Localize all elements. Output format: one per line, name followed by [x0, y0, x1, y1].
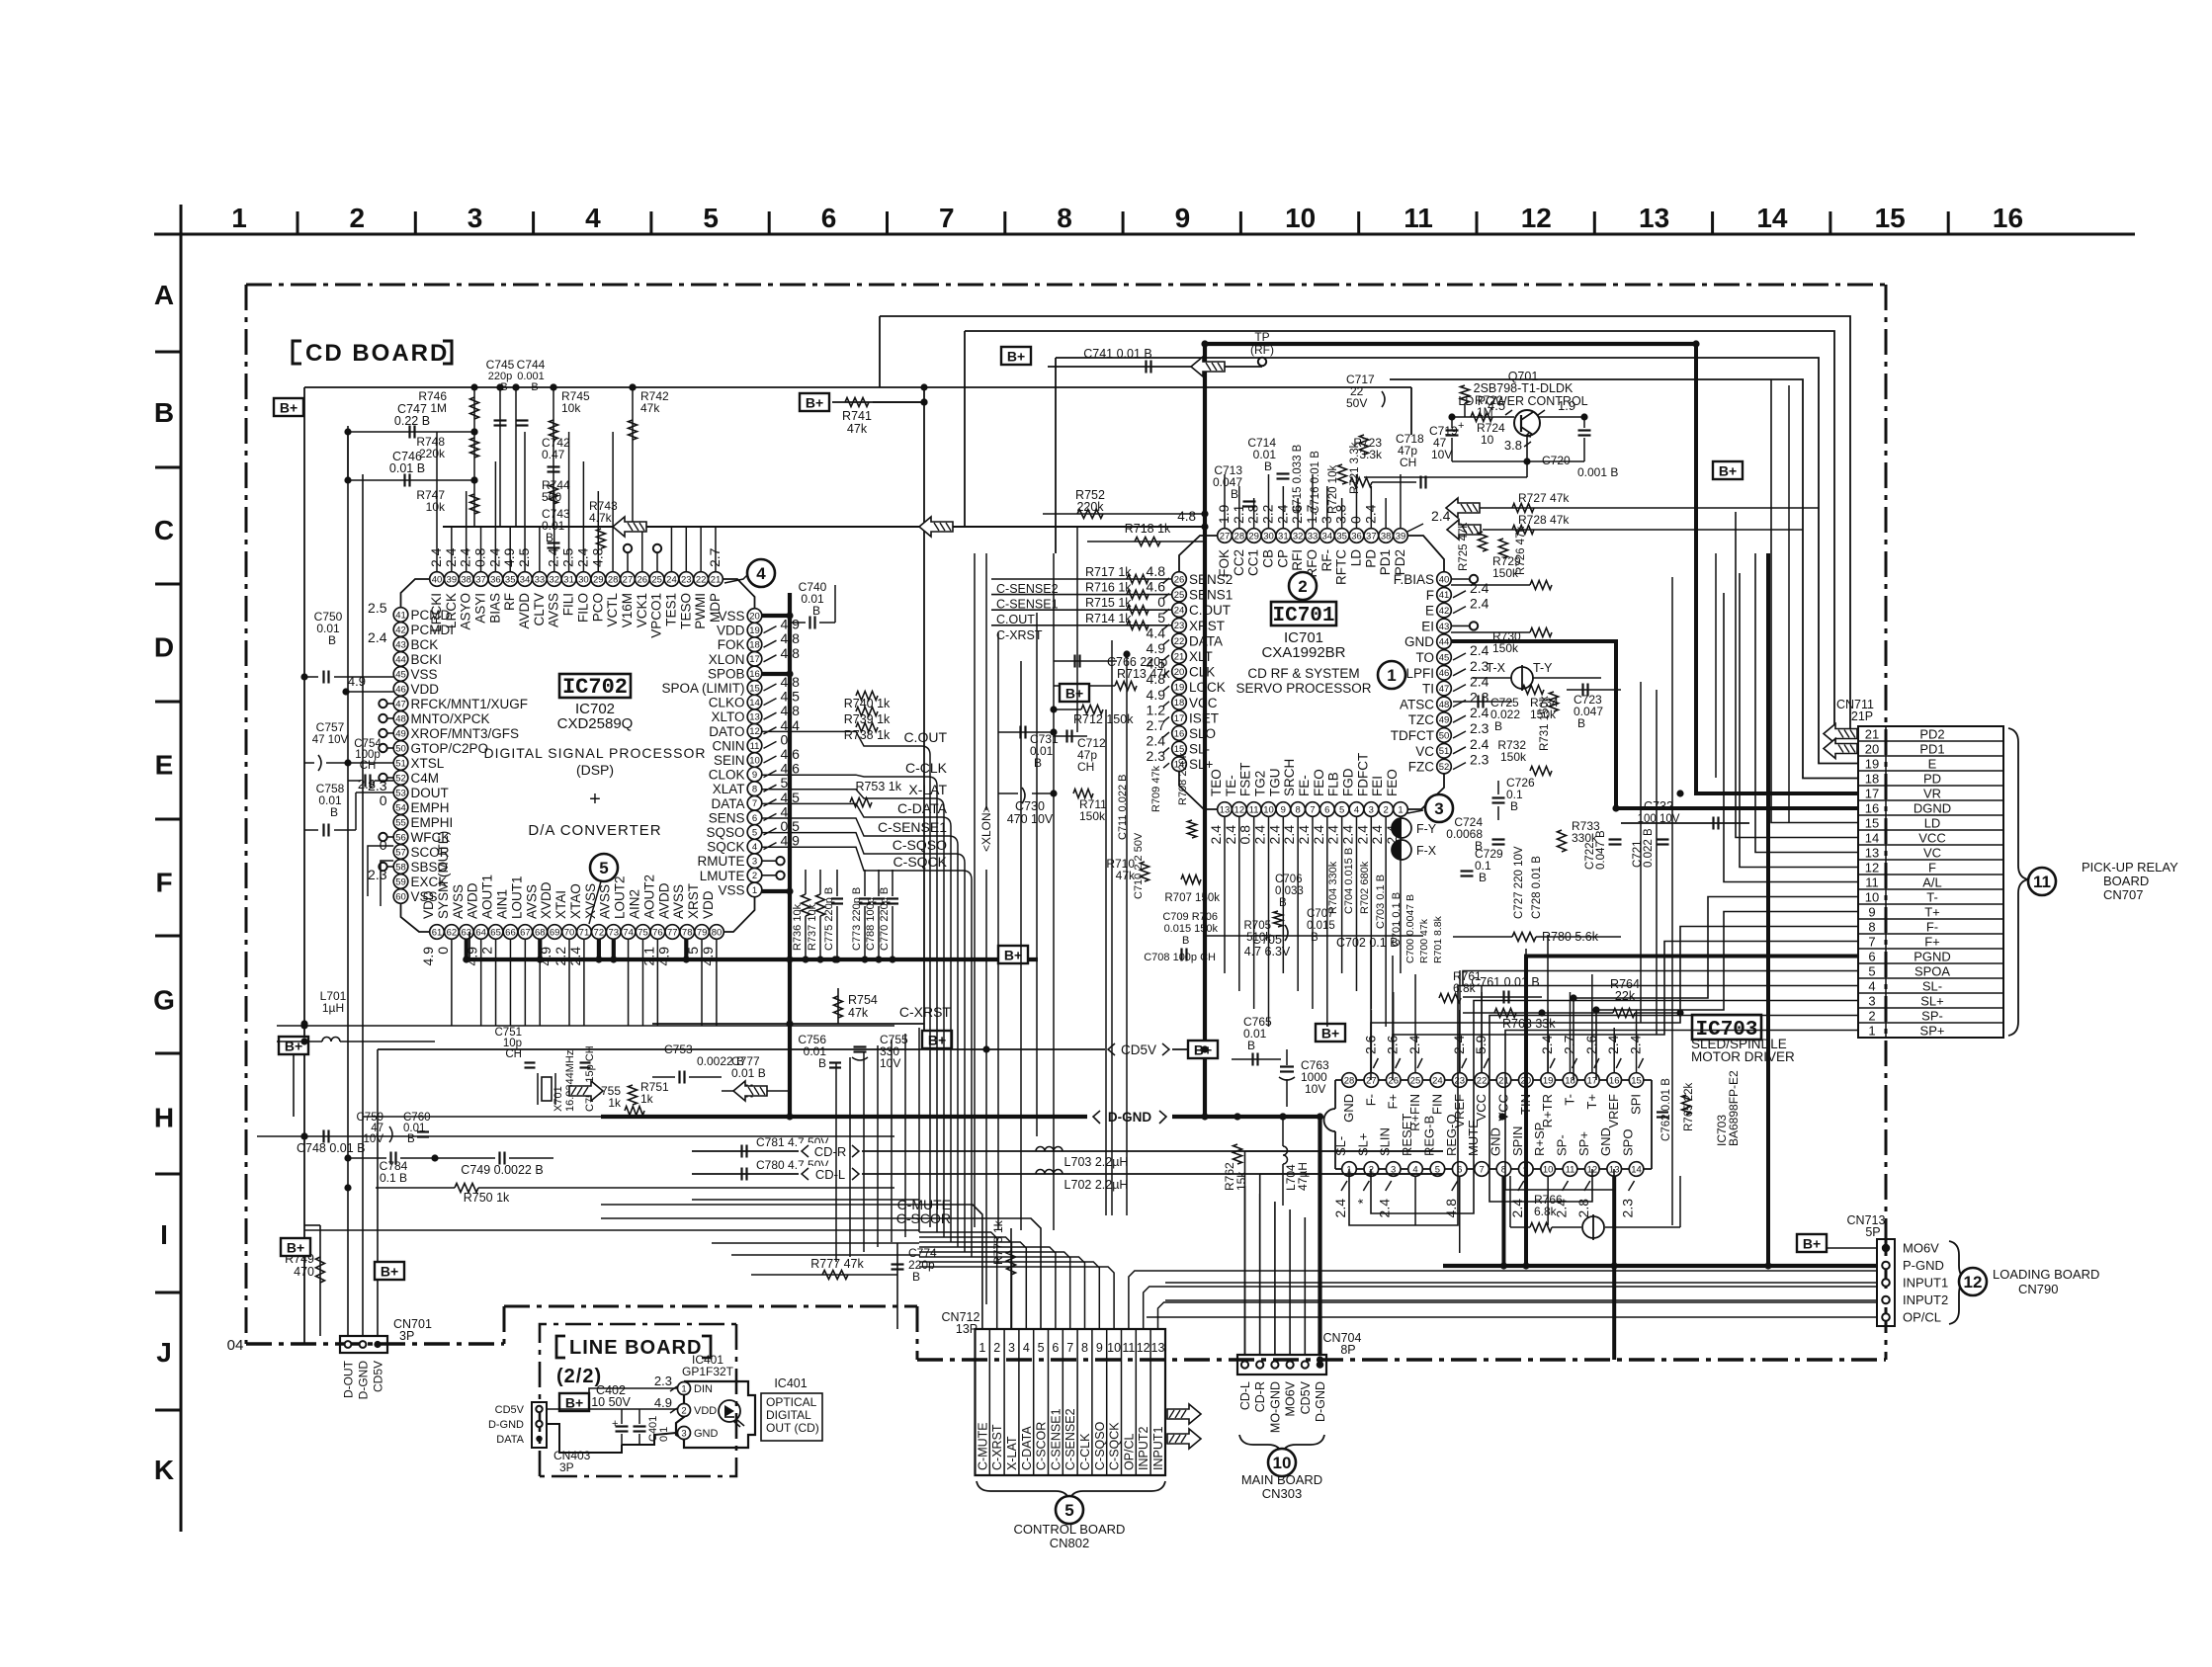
- svg-text:1.2: 1.2: [1147, 702, 1166, 717]
- svg-text:DGND: DGND: [1914, 800, 1951, 815]
- svg-text:R728 47k: R728 47k: [1518, 513, 1570, 527]
- svg-text:61: 61: [432, 927, 443, 938]
- svg-text:12: 12: [1234, 804, 1245, 815]
- svg-text:C702 0.1 B: C702 0.1 B: [1336, 936, 1399, 950]
- svg-text:A: A: [154, 280, 174, 310]
- svg-text:C-MUTE: C-MUTE: [976, 1422, 989, 1470]
- svg-text:XTSL: XTSL: [411, 756, 445, 771]
- svg-text:AVDD: AVDD: [466, 882, 480, 919]
- IC702 name box: [559, 674, 631, 698]
- C-XRST bus: [652, 1023, 924, 1025]
- svg-text:4: 4: [1354, 804, 1359, 815]
- circled ref 4 pointer: [747, 559, 775, 587]
- svg-text:REG-O: REG-O: [1444, 1114, 1459, 1156]
- svg-text:11: 11: [1249, 804, 1259, 815]
- svg-text:C-SCOR: C-SCOR: [896, 1210, 951, 1226]
- svg-text:70: 70: [564, 927, 575, 938]
- svg-text:EMPH: EMPH: [411, 800, 450, 815]
- svg-text:4.9: 4.9: [654, 1395, 672, 1410]
- svg-text:9: 9: [1175, 203, 1191, 233]
- wire thin PD row feed: [1390, 379, 1858, 779]
- svg-text:T+: T+: [1924, 904, 1940, 919]
- svg-text:V16M: V16M: [620, 593, 635, 627]
- svg-text:43: 43: [395, 639, 406, 650]
- svg-text:R750 1k: R750 1k: [464, 1191, 510, 1205]
- svg-text:4: 4: [781, 803, 789, 819]
- wire MO6V from B+ to CN713: [1797, 1234, 1827, 1252]
- svg-text:GND: GND: [1598, 1127, 1613, 1156]
- wires connecting CN701 risers: [347, 1224, 349, 1226]
- svg-text:T-: T-: [1926, 889, 1938, 904]
- svg-text:19: 19: [1174, 683, 1185, 694]
- svg-text:B: B: [812, 604, 820, 618]
- svg-text:C.OUT: C.OUT: [903, 729, 947, 745]
- svg-text:9: 9: [1281, 804, 1286, 815]
- svg-text:SENS2: SENS2: [1189, 572, 1233, 587]
- svg-text:XLTO: XLTO: [711, 709, 744, 724]
- svg-text:25: 25: [651, 574, 662, 585]
- svg-text:B+: B+: [285, 1039, 302, 1054]
- svg-text:2.4: 2.4: [428, 547, 444, 567]
- svg-text:VREF: VREF: [1606, 1094, 1621, 1128]
- svg-text:4.9: 4.9: [1147, 687, 1166, 703]
- svg-text:CD-R: CD-R: [1253, 1381, 1267, 1412]
- svg-text:36: 36: [1351, 531, 1362, 542]
- svg-text:40: 40: [432, 574, 443, 585]
- svg-text:R700 47k: R700 47k: [1418, 918, 1430, 963]
- svg-text:FEO: FEO: [1385, 769, 1400, 796]
- IC701 name box: [1271, 602, 1336, 625]
- B+ label left lower: [279, 1037, 308, 1054]
- svg-text:510k: 510k: [1246, 932, 1271, 944]
- svg-text:C741 0.01 B: C741 0.01 B: [1083, 347, 1152, 361]
- svg-text:28: 28: [1234, 531, 1245, 542]
- svg-text:50: 50: [395, 743, 406, 754]
- svg-text:33: 33: [535, 574, 546, 585]
- svg-text:4.9: 4.9: [501, 547, 517, 567]
- svg-text:54: 54: [395, 802, 406, 813]
- svg-text:AIN1: AIN1: [494, 889, 509, 919]
- svg-text:FILI: FILI: [561, 593, 576, 616]
- svg-text:BCK: BCK: [411, 637, 439, 652]
- svg-text:6: 6: [1052, 1341, 1059, 1355]
- svg-text:X-LAT: X-LAT: [1005, 1436, 1019, 1470]
- IC703 top pins 28-15: [1342, 1073, 1357, 1088]
- double arrow near R727: [1446, 498, 1480, 518]
- svg-text:D-OUT: D-OUT: [342, 1360, 356, 1398]
- svg-text:23: 23: [1454, 1075, 1465, 1086]
- svg-text:3.8: 3.8: [1504, 438, 1522, 453]
- svg-text:4.9: 4.9: [348, 674, 366, 689]
- svg-text:AVSS: AVSS: [547, 593, 561, 627]
- svg-text:DIGITAL SIGNAL PROCESSOR: DIGITAL SIGNAL PROCESSOR: [484, 745, 707, 761]
- svg-text:PD: PD: [1363, 549, 1378, 568]
- svg-text:2.3: 2.3: [1620, 1199, 1636, 1218]
- svg-text:CN303: CN303: [1262, 1486, 1302, 1501]
- svg-text:E: E: [155, 750, 174, 781]
- wire bundle into CN712: [919, 1232, 997, 1329]
- wire T+ row: [1596, 912, 1858, 1081]
- IC701 left pins 26-14: [1172, 572, 1187, 587]
- svg-text:VDD: VDD: [694, 1405, 717, 1417]
- svg-text:C748 0.01 B: C748 0.01 B: [297, 1141, 366, 1155]
- arrow left near IC702 top: [613, 517, 646, 537]
- svg-text:C-SQSO: C-SQSO: [1093, 1421, 1107, 1470]
- svg-text:47: 47: [1439, 684, 1450, 695]
- svg-text:SYSM (MUTE): SYSM (MUTE): [436, 831, 451, 919]
- svg-text:3: 3: [1319, 516, 1334, 524]
- svg-text:CLKO: CLKO: [709, 696, 745, 710]
- svg-text:IC701: IC701: [1272, 605, 1334, 627]
- svg-text:9: 9: [1096, 1341, 1103, 1355]
- wires IC703 bottom feeds: [1414, 1176, 1416, 1225]
- svg-text:SP+: SP+: [1576, 1131, 1591, 1156]
- svg-text:2.4: 2.4: [1362, 504, 1378, 524]
- extra verticals right of IC701: [1640, 682, 1642, 1023]
- svg-text:1: 1: [752, 885, 757, 896]
- svg-text:41: 41: [1439, 590, 1450, 601]
- svg-text:47k: 47k: [640, 401, 660, 415]
- svg-text:23: 23: [681, 574, 692, 585]
- svg-text:6.8k: 6.8k: [1534, 1205, 1558, 1218]
- svg-text:PGND: PGND: [1914, 949, 1951, 963]
- svg-text:C757: C757: [316, 720, 345, 734]
- svg-text:0.8: 0.8: [472, 547, 488, 567]
- svg-text:22k: 22k: [1615, 989, 1636, 1003]
- svg-text:15: 15: [1631, 1075, 1642, 1086]
- svg-text:1M: 1M: [1477, 405, 1493, 419]
- svg-text:FIN: FIN: [1429, 1094, 1444, 1115]
- svg-text:MO-GND: MO-GND: [1268, 1381, 1282, 1433]
- svg-text:59: 59: [395, 876, 406, 887]
- svg-text:B: B: [1247, 1039, 1255, 1052]
- svg-text:62: 62: [447, 927, 458, 938]
- svg-text:RF: RF: [502, 593, 517, 611]
- svg-text:B: B: [1577, 716, 1585, 730]
- wire EXCK SCOR verticals: [368, 846, 393, 896]
- svg-text:LD: LD: [1349, 549, 1364, 567]
- svg-text:5: 5: [752, 827, 757, 838]
- svg-text:SL+: SL+: [1920, 993, 1944, 1008]
- svg-text:C728 0.01 B: C728 0.01 B: [1531, 856, 1543, 919]
- wire bold P-GND bus: [1443, 1264, 1877, 1268]
- arrow left mid: [919, 517, 953, 537]
- svg-text:58: 58: [395, 862, 406, 873]
- svg-text:21: 21: [1174, 651, 1185, 662]
- svg-text:56: 56: [395, 832, 406, 843]
- svg-text:3.3k: 3.3k: [1359, 448, 1383, 461]
- svg-text:CD5V: CD5V: [495, 1404, 525, 1416]
- svg-text:CONTROL BOARD: CONTROL BOARD: [1014, 1522, 1126, 1537]
- svg-text:25: 25: [1174, 590, 1185, 601]
- svg-text:VCK1: VCK1: [635, 593, 649, 627]
- svg-text:X-LAT: X-LAT: [908, 782, 947, 797]
- svg-text:28: 28: [608, 574, 619, 585]
- C766 220p: [1073, 655, 1075, 668]
- svg-text:11: 11: [2033, 873, 2051, 891]
- connector CN712 13P table: [976, 1329, 1166, 1475]
- svg-text:10k: 10k: [561, 401, 581, 415]
- IC702 top pins 40-21: [430, 572, 445, 587]
- LINE BOARD dash-dot border: [540, 1324, 736, 1476]
- svg-text:B: B: [407, 1133, 415, 1145]
- wire G row bus: [434, 1026, 436, 1042]
- svg-text:68: 68: [535, 927, 546, 938]
- svg-text:13: 13: [1220, 804, 1231, 815]
- svg-text:4: 4: [752, 842, 757, 853]
- svg-text:SL+: SL+: [1355, 1133, 1370, 1157]
- svg-text:2.2: 2.2: [1260, 504, 1276, 524]
- svg-text:FOK: FOK: [718, 637, 745, 652]
- svg-text:7: 7: [1066, 1341, 1073, 1355]
- svg-text:57: 57: [395, 847, 406, 858]
- svg-text:10V: 10V: [1431, 448, 1452, 461]
- svg-text:10: 10: [1273, 1454, 1292, 1472]
- svg-text:13: 13: [1639, 203, 1669, 233]
- svg-text:48: 48: [1439, 700, 1450, 710]
- svg-text:1: 1: [1387, 666, 1396, 685]
- svg-text:VR: VR: [1923, 786, 1941, 800]
- svg-text:18: 18: [749, 640, 760, 651]
- B+ label mid: [922, 1031, 952, 1048]
- svg-text:150k: 150k: [1079, 809, 1106, 823]
- svg-text:RESET: RESET: [1400, 1114, 1414, 1156]
- circled ref 3: [1425, 794, 1453, 822]
- svg-text:C708 100p CH: C708 100p CH: [1144, 952, 1216, 963]
- svg-text:0.033: 0.033: [1275, 885, 1304, 897]
- svg-text:12: 12: [1865, 860, 1879, 875]
- R718 1k wire: [1087, 541, 1205, 542]
- svg-text:ATSC: ATSC: [1400, 697, 1434, 711]
- svg-text:69: 69: [550, 927, 560, 938]
- svg-text:AVDD: AVDD: [656, 882, 671, 919]
- svg-text:19: 19: [749, 625, 760, 636]
- svg-text:47 10V: 47 10V: [312, 734, 349, 746]
- vertical feeders from IC702 bottom: [451, 939, 453, 1026]
- big arrows bottom of IC702: [733, 1081, 767, 1101]
- svg-text:D: D: [154, 632, 174, 663]
- svg-text:5: 5: [1339, 804, 1344, 815]
- svg-text:R741: R741: [842, 409, 872, 423]
- svg-text:42: 42: [1439, 606, 1450, 617]
- svg-text:R727 47k: R727 47k: [1518, 491, 1570, 505]
- svg-text:44: 44: [395, 654, 406, 665]
- svg-text:2: 2: [752, 871, 757, 881]
- svg-text:C4M: C4M: [411, 771, 440, 786]
- svg-text:8P: 8P: [1340, 1343, 1355, 1357]
- svg-text:17: 17: [749, 654, 760, 665]
- svg-text:C-CLK: C-CLK: [1078, 1433, 1092, 1470]
- svg-text:BOARD: BOARD: [2103, 874, 2149, 888]
- svg-text:R707 150k: R707 150k: [1164, 892, 1220, 904]
- svg-text:INPUT2: INPUT2: [1137, 1427, 1150, 1471]
- svg-text:8: 8: [1296, 804, 1301, 815]
- CD5V net label: [1105, 1041, 1172, 1057]
- svg-text:TGU: TGU: [1267, 769, 1282, 797]
- svg-text:21: 21: [1498, 1075, 1509, 1086]
- svg-text:150k: 150k: [1500, 750, 1527, 764]
- svg-text:1: 1: [1868, 1023, 1875, 1038]
- IC701 right pins 40-52: [1437, 572, 1452, 587]
- svg-text:4.9: 4.9: [420, 947, 436, 966]
- svg-text:20: 20: [1865, 741, 1879, 756]
- svg-text:13P: 13P: [956, 1322, 978, 1336]
- svg-text:C744: C744: [517, 358, 546, 372]
- svg-text:11: 11: [1122, 1341, 1135, 1355]
- svg-text:FILO: FILO: [575, 593, 590, 623]
- svg-text:C700 0.0047 B: C700 0.0047 B: [1404, 894, 1416, 963]
- IC702 left open terminals: [379, 700, 386, 708]
- svg-text:TE-: TE-: [1224, 775, 1238, 796]
- svg-text:C-SQCK: C-SQCK: [893, 854, 948, 870]
- svg-text:25: 25: [1410, 1075, 1421, 1086]
- svg-text:13: 13: [1151, 1341, 1165, 1355]
- caps under IC702 right area: [802, 894, 810, 916]
- svg-text:C-XRST: C-XRST: [996, 628, 1043, 642]
- wire thin top loop y320: [880, 316, 1858, 734]
- svg-text:SPOB: SPOB: [708, 666, 745, 681]
- svg-text:CD-R: CD-R: [814, 1144, 847, 1159]
- svg-text:C775 220p B: C775 220p B: [823, 887, 835, 951]
- T-X T-Y tape head symbol: [1511, 667, 1533, 689]
- svg-text:2: 2: [1298, 577, 1307, 596]
- CD-L line with L702: [692, 1173, 1443, 1175]
- svg-text:C730: C730: [1015, 799, 1045, 813]
- thin bus y1038: [277, 1025, 894, 1027]
- svg-text:BA6898FP-E2: BA6898FP-E2: [1727, 1070, 1741, 1146]
- svg-text:C715 0.033 B: C715 0.033 B: [1292, 444, 1304, 514]
- svg-text:B+: B+: [1803, 1236, 1821, 1252]
- svg-text:2.4: 2.4: [1470, 674, 1489, 690]
- svg-text:28: 28: [1344, 1075, 1355, 1086]
- svg-text:G: G: [153, 984, 175, 1015]
- svg-text:SENS1: SENS1: [1189, 588, 1233, 603]
- svg-text:I: I: [160, 1219, 168, 1250]
- svg-text:PCO: PCO: [590, 593, 605, 622]
- svg-text:C753: C753: [664, 1042, 693, 1056]
- svg-text:R709 47k: R709 47k: [1150, 765, 1162, 812]
- svg-text:FZC: FZC: [1408, 760, 1434, 775]
- connector CN704 8P: [1237, 1355, 1326, 1375]
- svg-text:C: C: [154, 515, 174, 545]
- svg-text:2.3: 2.3: [358, 777, 376, 792]
- svg-text:+: +: [612, 1418, 618, 1430]
- svg-text:150k: 150k: [1492, 641, 1519, 655]
- svg-text:TI: TI: [1422, 682, 1434, 697]
- Q701 wires and values: [1452, 416, 1514, 418]
- svg-text:2.5: 2.5: [368, 600, 387, 616]
- svg-text:PCMD: PCMD: [411, 608, 451, 623]
- CD5V bus: [378, 1048, 1187, 1050]
- ruler column ticks: [297, 211, 299, 234]
- svg-text:CLK: CLK: [1189, 665, 1215, 680]
- svg-text:DOUT: DOUT: [411, 786, 449, 800]
- svg-text:C745: C745: [486, 358, 515, 372]
- svg-text:74: 74: [623, 927, 634, 938]
- svg-text:5: 5: [599, 859, 608, 877]
- svg-text:C732: C732: [1644, 799, 1673, 813]
- svg-text:REG-B: REG-B: [1421, 1116, 1436, 1156]
- svg-text:24: 24: [666, 574, 677, 585]
- arrow on C741 line: [1191, 357, 1225, 376]
- svg-text:BIAS: BIAS: [487, 593, 502, 624]
- svg-text:SPOA (LIMIT): SPOA (LIMIT): [661, 681, 744, 696]
- svg-text:72: 72: [594, 927, 605, 938]
- svg-text:2.4: 2.4: [1406, 1035, 1422, 1054]
- svg-text:F: F: [1426, 588, 1434, 603]
- svg-text:47µH: 47µH: [1296, 1162, 1310, 1191]
- svg-text:R+SP: R+SP: [1532, 1123, 1547, 1156]
- svg-text:C-SCOR: C-SCOR: [1035, 1422, 1049, 1470]
- svg-text:L702 2.2µH: L702 2.2µH: [1064, 1178, 1129, 1192]
- svg-text:CP: CP: [1275, 549, 1290, 568]
- svg-text:AOUT1: AOUT1: [480, 875, 495, 919]
- verticals from top bus to B+ bus: [473, 387, 475, 527]
- svg-text:2.7: 2.7: [1562, 1035, 1577, 1054]
- svg-text:17: 17: [1865, 786, 1879, 800]
- svg-text:CXD2589Q: CXD2589Q: [557, 715, 634, 732]
- svg-text:8: 8: [1057, 203, 1072, 233]
- svg-text:DIN: DIN: [694, 1383, 713, 1395]
- svg-text:1: 1: [978, 1341, 985, 1355]
- svg-text:12: 12: [1521, 203, 1552, 233]
- svg-text:14: 14: [1631, 1164, 1642, 1175]
- svg-text:6: 6: [1868, 949, 1875, 963]
- svg-text:D-GND: D-GND: [357, 1361, 371, 1400]
- svg-text:19: 19: [1543, 1075, 1554, 1086]
- svg-text:12: 12: [1964, 1273, 1983, 1292]
- svg-text:7: 7: [752, 798, 757, 809]
- open terminals V16M VPCO1: [627, 553, 629, 572]
- wire VR bold: [1696, 344, 1858, 793]
- svg-text:11: 11: [1865, 875, 1879, 889]
- IC703 name box: [1692, 1015, 1761, 1040]
- junction dots sprinkle: [920, 383, 927, 390]
- svg-text:16: 16: [1174, 728, 1185, 739]
- op-amp U-IC702 DSP body: [401, 579, 438, 615]
- svg-text:B: B: [1311, 932, 1319, 944]
- svg-text:3: 3: [468, 203, 483, 233]
- bold GND stubs IC703: [1501, 1177, 1505, 1267]
- svg-text:CLOK: CLOK: [709, 768, 745, 783]
- extra mid verticals: [974, 553, 976, 1227]
- C732 capacitor: [1621, 822, 1749, 824]
- svg-text:15: 15: [1865, 815, 1879, 830]
- svg-text:5.9: 5.9: [1473, 1035, 1489, 1054]
- svg-text:38: 38: [1381, 531, 1392, 542]
- svg-text:B+: B+: [1321, 1026, 1339, 1042]
- svg-text:78: 78: [682, 927, 693, 938]
- svg-text:9: 9: [752, 770, 757, 781]
- svg-text:3: 3: [1434, 799, 1443, 818]
- svg-text:11: 11: [750, 741, 760, 752]
- svg-text:F+: F+: [1386, 1094, 1401, 1110]
- svg-text:2.4: 2.4: [1470, 596, 1489, 612]
- svg-text:LMUTE: LMUTE: [700, 869, 745, 883]
- wire VC row: [1755, 553, 1858, 853]
- svg-text:10V: 10V: [880, 1056, 900, 1070]
- left B+ vertical: [303, 387, 305, 1344]
- D-GND net label: [1087, 1108, 1172, 1125]
- svg-text:RF-: RF-: [1319, 549, 1334, 572]
- svg-text:5P: 5P: [1865, 1225, 1880, 1239]
- svg-text:CD RF & SYSTEM: CD RF & SYSTEM: [1247, 666, 1359, 681]
- svg-text:7: 7: [1310, 804, 1315, 815]
- svg-text:AIN2: AIN2: [628, 889, 642, 919]
- long horizontals feeding CN704: [845, 1150, 1245, 1152]
- svg-text:VC: VC: [1923, 845, 1941, 860]
- svg-text:A/L: A/L: [1922, 875, 1942, 889]
